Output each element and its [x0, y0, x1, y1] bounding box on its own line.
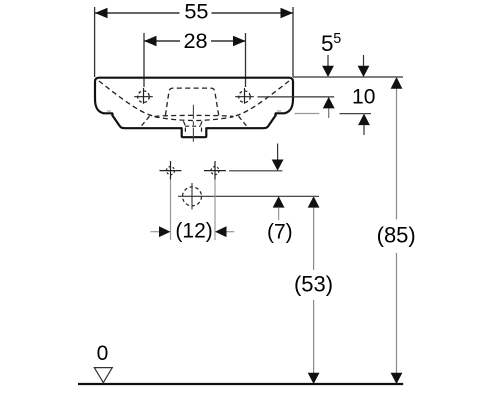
- drain axis reference line: [178, 195, 319, 197]
- tap hole axis reference line: [258, 96, 335, 98]
- svg-text:28: 28: [183, 28, 207, 53]
- dimension 55 right arrowhead: [281, 8, 294, 18]
- dimension 55 horizontal line: [95, 12, 293, 14]
- shelf hidden edge tick left gray: [107, 110, 111, 112]
- drain funnel dashed: [183, 121, 202, 126]
- tap hole right crosshair: [235, 88, 254, 104]
- overflow recess dashed trapezoid: [165, 88, 218, 115]
- drain dashed circle: [183, 187, 202, 206]
- fixing hole right dashed circle: [211, 167, 219, 175]
- dimension 12 left extension line gray: [170, 180, 172, 240]
- dimension 53 line upper: [313, 196, 315, 270]
- fixing hole axis reference line: [229, 170, 282, 172]
- dimension 53 line lower: [313, 300, 315, 384]
- dimension 12 left arrow: [150, 226, 170, 237]
- dimension 53 up arrowhead: [308, 196, 320, 207]
- dimension 85 line upper: [396, 77, 398, 219]
- datum triangle: [94, 368, 112, 383]
- bowl sump front arc dashed: [155, 117, 234, 121]
- fixing hole right crosshair: [204, 161, 226, 180]
- dimension 12 right arrow: [215, 226, 234, 237]
- bowl sump band top dashed: [155, 115, 234, 116]
- dimension 7 up arrow: [273, 196, 285, 220]
- tap hole left dashed circle: [138, 91, 150, 103]
- bowl crease diagonal right dashed: [239, 116, 249, 128]
- shelf reference line gray dash: [295, 113, 320, 115]
- tap hole left crosshair: [134, 88, 153, 104]
- dimension 85 up arrowhead: [391, 77, 403, 89]
- svg-text:(85): (85): [377, 223, 416, 248]
- svg-text:55: 55: [184, 0, 208, 23]
- tap hole right dashed circle: [239, 91, 251, 103]
- rim extension reference line: [293, 76, 403, 78]
- dimension 28 left arrowhead: [144, 36, 157, 46]
- dimension 55 right extension line: [292, 7, 294, 77]
- drain pipe hidden lines dashed: [185, 128, 201, 135]
- dimension 5.5 up arrow: [323, 97, 335, 118]
- dimension 28 right arrowhead: [233, 36, 246, 46]
- dimension 5.5 down arrow: [322, 55, 334, 77]
- dimension 12 right extension line gray: [214, 180, 216, 240]
- shelf hidden edge tick right gray: [277, 110, 281, 112]
- svg-text:0: 0: [97, 342, 109, 365]
- dimension 55 left arrowhead: [95, 8, 108, 18]
- dimension 85 line lower: [396, 253, 398, 384]
- dimension 28 right extension line: [245, 33, 247, 87]
- svg-text:10: 10: [352, 85, 375, 108]
- dimension 53 down arrowhead: [308, 373, 320, 384]
- dimension 85 down arrowhead: [391, 373, 403, 384]
- svg-text:(12): (12): [175, 219, 212, 242]
- dimension 28 horizontal line: [144, 40, 246, 42]
- dimension 10 down arrow: [358, 55, 370, 77]
- drain vertical center line: [191, 183, 193, 210]
- fixing hole left crosshair: [160, 161, 182, 180]
- floor line: [78, 383, 403, 385]
- svg-text:(53): (53): [294, 272, 333, 297]
- basin inner bowl dashed curve left: [99, 81, 155, 116]
- fixing hole left dashed circle: [167, 167, 175, 175]
- svg-text:5: 5: [333, 31, 341, 47]
- svg-text:5: 5: [321, 31, 334, 56]
- shelf reference line under 10: [340, 113, 372, 115]
- dimension 55 left extension line: [94, 7, 96, 77]
- basin inner bowl dashed curve right: [234, 81, 290, 116]
- dimension 28 left extension line: [143, 33, 145, 87]
- dimension 10 up arrow: [358, 114, 370, 135]
- dimension 7 down arrow: [272, 144, 284, 171]
- svg-text:(7): (7): [267, 220, 293, 243]
- basin outline: [95, 78, 293, 138]
- basin center line: [192, 105, 194, 144]
- bowl crease diagonal left dashed: [140, 116, 150, 128]
